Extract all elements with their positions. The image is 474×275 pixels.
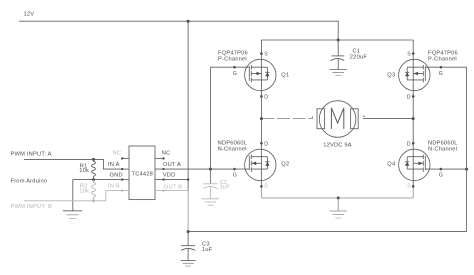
ground (bridge bottom center): [330, 211, 347, 218]
pin D of Q4: [412, 142, 415, 145]
wire PWM input B (grey): [24, 191, 122, 201]
svg-text:G: G: [233, 173, 237, 179]
ground (under C2, grey): [202, 199, 219, 205]
junction Q4 gate / right gate column: [465, 168, 468, 171]
transistor Q2 NDP6060L N-Channel (bottom-left): [245, 149, 276, 180]
svg-text:12VDC 9A: 12VDC 9A: [323, 142, 352, 148]
pin S of Q4: [412, 185, 415, 188]
svg-text:PWM INPUT: A: PWM INPUT: A: [11, 151, 52, 157]
pin tick motor left: [311, 116, 313, 118]
svg-text:IN A: IN A: [108, 162, 120, 168]
wire OUT B / C3 drop: [187, 191, 189, 232]
svg-text:GND: GND: [110, 172, 123, 178]
junction R1/R2/GND: [92, 178, 95, 181]
junction motor right: [412, 117, 415, 120]
pin tick motor right: [363, 115, 365, 117]
svg-text:S: S: [264, 52, 268, 58]
svg-text:Q3: Q3: [387, 73, 395, 79]
value label R2 10k (grey): [79, 184, 89, 195]
wire VDD to C3 column: [155, 179, 188, 181]
ground (under C3): [181, 261, 196, 267]
svg-text:10k: 10k: [79, 168, 89, 174]
value label R1 10k: [79, 163, 89, 174]
part label NDP6060L N-Channel (Q2): [218, 140, 248, 152]
transistor Q4 NDP6060L N-Channel (bottom-right, mirrored): [399, 149, 430, 180]
junction VDD / feed riser: [187, 178, 189, 180]
value label C1 220uF: [350, 48, 368, 60]
svg-text:P-Channel: P-Channel: [218, 56, 247, 62]
pin IN A (pin 2): [122, 168, 129, 170]
svg-text:Q4: Q4: [387, 162, 395, 168]
svg-text:1uF: 1uF: [220, 184, 231, 190]
pin S of Q2: [260, 185, 263, 188]
wire bottom bridge (Q2.S to Q4.S): [261, 197, 413, 199]
svg-text:D: D: [264, 95, 268, 101]
svg-text:D: D: [407, 95, 411, 101]
svg-text:S: S: [407, 52, 411, 58]
wire motor lead right: [363, 118, 413, 120]
svg-text:S: S: [407, 184, 411, 190]
resistor R1: [92, 159, 96, 179]
pin D of Q3: [412, 95, 415, 98]
junction motor left: [260, 117, 263, 120]
resistor R2 (grey): [92, 180, 96, 201]
svg-text:220uF: 220uF: [350, 55, 368, 61]
wire bottom ground lead: [337, 198, 339, 211]
value label C3 1uF: [202, 242, 213, 253]
svg-text:NC: NC: [113, 151, 122, 157]
pin G of Q2: [233, 168, 236, 171]
pin S of Q1: [260, 52, 263, 55]
ground (input side): [63, 211, 82, 219]
svg-text:IN B: IN B: [108, 184, 120, 190]
junction 12V rail / feed riser: [187, 20, 190, 23]
svg-text:Q2: Q2: [281, 162, 289, 168]
capacitor C2 (grey): [203, 169, 217, 199]
pin NC right (pin 8): [155, 157, 164, 159]
svg-text:1uF: 1uF: [202, 247, 213, 253]
svg-text:C1: C1: [353, 48, 361, 54]
pin G of Q3: [440, 66, 443, 69]
svg-text:G: G: [439, 173, 443, 179]
transistor Q1 FQP47P06 P-Channel (top-left): [245, 59, 276, 90]
part label NDP6060L N-Channel (Q4): [428, 140, 458, 152]
svg-text:Q1: Q1: [281, 73, 289, 79]
capacitor C1: [331, 56, 345, 70]
svg-text:D: D: [407, 141, 411, 147]
pin D of Q2: [260, 142, 263, 145]
junction OUT A / gate column A: [209, 168, 212, 171]
svg-text:From Arduino: From Arduino: [11, 179, 48, 185]
wire motor lead left (broken/faint): [261, 118, 312, 120]
junction bottom center: [337, 197, 340, 200]
ground (under C1): [330, 70, 347, 76]
svg-text:G: G: [439, 71, 443, 77]
wire OUT A to Q2 gate: [155, 168, 249, 170]
capacitor C3: [181, 232, 195, 261]
wire right column: [412, 40, 414, 186]
wire Q3 gate: [425, 66, 466, 68]
wire Q2 source drop: [260, 186, 262, 198]
part label FQP47P06 P-Channel (Q1): [218, 50, 248, 62]
svg-text:P-Channel: P-Channel: [428, 56, 457, 62]
pin D of Q1: [260, 95, 263, 98]
junction R2 bottom (grey): [92, 199, 95, 202]
junction top center: [337, 39, 340, 42]
svg-text:N-Channel: N-Channel: [428, 146, 457, 152]
svg-text:N-Channel: N-Channel: [218, 146, 247, 152]
svg-text:10k: 10k: [79, 188, 89, 194]
pin NC left (pin 1): [122, 157, 129, 159]
pin IN B (pin 4): [122, 190, 129, 192]
svg-text:VDD: VDD: [163, 172, 176, 178]
svg-text:D: D: [264, 141, 268, 147]
wire Q1 gate: [210, 66, 249, 68]
wire C1 lead: [337, 40, 339, 56]
wire OUT B: [155, 190, 188, 192]
IC U1 TC4428 body: [129, 146, 155, 200]
wire top bridge (Q1.S to Q3.S): [261, 39, 413, 41]
svg-text:12V: 12V: [24, 12, 35, 18]
pin G of Q1: [233, 66, 236, 69]
svg-text:G: G: [233, 71, 237, 77]
pin S of Q3: [412, 52, 415, 55]
svg-text:TC4428: TC4428: [132, 171, 154, 177]
wire GND drop: [72, 180, 74, 211]
transistor Q3 FQP47P06 P-Channel (top-right, mirrored): [399, 59, 430, 90]
junction R1 top: [92, 158, 95, 161]
junction C3 / bottom run: [187, 230, 190, 233]
svg-text:OUT A: OUT A: [163, 162, 181, 168]
wire Q4 gate: [425, 168, 466, 170]
svg-text:S: S: [264, 184, 268, 190]
pin GND (pin 3): [122, 179, 129, 181]
wire left column (12V bus to Q1.S, Q1.D to motor A node, Q2.S): [260, 40, 262, 186]
pin G of Q4: [440, 168, 443, 171]
wire bottom run to right gate column: [188, 231, 467, 233]
wire gate column A (Q1 gate down to OUT A line): [209, 67, 211, 169]
wire right gate column (OUT B riser): [466, 67, 468, 231]
svg-text:NC: NC: [162, 151, 171, 157]
svg-text:PWM INPUT: B: PWM INPUT: B: [11, 204, 53, 210]
value label C2 1uF (grey): [220, 180, 231, 191]
wire GND row: [73, 179, 122, 181]
wire 12V rail: [19, 21, 338, 40]
svg-text:OUT B: OUT B: [164, 185, 182, 191]
wire 12V feed riser (rail to VDD): [187, 21, 189, 190]
wire PWM input A: [24, 159, 122, 169]
motor M1: [317, 101, 358, 138]
wire Q4 source drop: [412, 186, 414, 198]
part label FQP47P06 P-Channel (Q3): [428, 50, 458, 62]
